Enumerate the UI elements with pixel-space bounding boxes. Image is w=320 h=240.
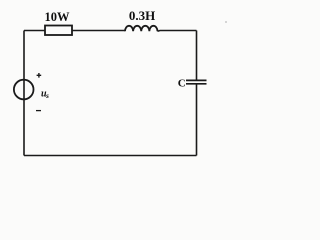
voltage source us circle	[14, 80, 34, 100]
label - polarity	[36, 110, 41, 112]
wire left segment (passes through source)	[23, 31, 25, 156]
wire top-right segment	[158, 30, 197, 33]
resistor 10W	[45, 26, 72, 36]
svg-text:C: C	[178, 78, 186, 90]
inductor 0.3H	[125, 26, 157, 32]
svg-text:0.3H: 0.3H	[129, 8, 155, 23]
wire bottom segment	[24, 155, 197, 157]
wire top-left segment	[24, 30, 45, 32]
scan speck	[225, 21, 227, 23]
wire right upper segment	[196, 31, 198, 81]
wire right lower segment	[196, 85, 198, 156]
wire top-middle segment	[72, 30, 125, 32]
label + polarity	[37, 73, 42, 78]
svg-text:10W: 10W	[45, 10, 71, 24]
capacitor C plates	[186, 79, 207, 81]
svg-text:s: s	[45, 91, 49, 100]
